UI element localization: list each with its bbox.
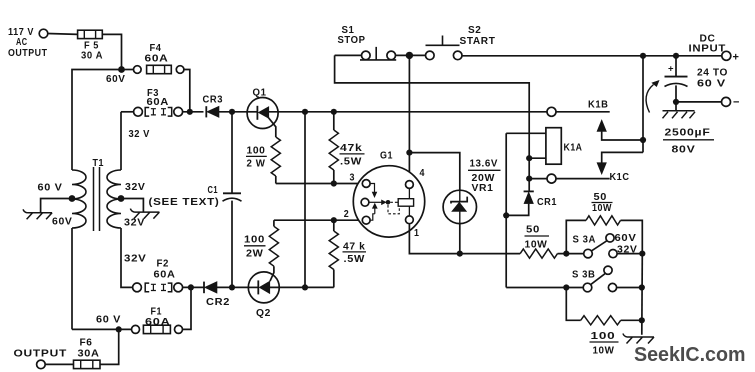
switch S3A (573, 233, 638, 258)
node K1A bottom / S1-loop line (526, 155, 532, 161)
resistor 47k .5W (upper) (329, 112, 364, 187)
svg-text:60A: 60A (147, 97, 170, 108)
transistor Q2 (248, 266, 334, 319)
wire S3A 32V to right rail (617, 253, 642, 255)
svg-text:.5W: .5W (344, 254, 366, 265)
svg-text:OUTPUT: OUTPUT (8, 48, 48, 59)
svg-text:STOP: STOP (338, 35, 366, 46)
svg-text:CR1: CR1 (537, 197, 557, 208)
terminal DC input - (722, 97, 740, 109)
wire S1 to S2 (396, 54, 426, 56)
svg-text:Q1: Q1 (253, 88, 267, 99)
svg-text:START: START (460, 36, 496, 47)
node C1 line / Q2 line junction (229, 284, 235, 290)
svg-text:F2: F2 (157, 259, 170, 270)
fuse F4 60A (134, 43, 184, 74)
node x305 / Q2 line (302, 284, 308, 290)
svg-text:S 3A: S 3A (573, 235, 597, 246)
wire T1 secondary bottom down to F2 (121, 228, 133, 287)
svg-text:60A: 60A (145, 54, 169, 65)
svg-text:VR1: VR1 (472, 183, 494, 194)
node 60V junction (118, 66, 125, 73)
wire CR3 node down to C1 (231, 112, 233, 194)
svg-text:2W: 2W (246, 248, 264, 259)
switch S2 START (NO pushbutton) (426, 25, 496, 60)
svg-text:60 V: 60 V (38, 183, 63, 194)
wire 60V node to F4 (122, 69, 134, 71)
wire F4 to main line (184, 70, 190, 112)
wire right rail (641, 254, 644, 335)
svg-text:1: 1 (414, 228, 420, 239)
relay contact K1C (529, 152, 643, 183)
fuse F3 60A (134, 88, 183, 116)
svg-text:CR3: CR3 (203, 94, 224, 105)
node VR1/rail junction (457, 251, 463, 257)
svg-text:AC: AC (16, 37, 28, 48)
wire OUTPUT terminal to F6 (45, 363, 73, 365)
svg-text:K1A: K1A (564, 143, 583, 154)
wire Q2 collector line to G1 pin2 (274, 219, 362, 221)
svg-text:60 V: 60 V (96, 315, 121, 326)
svg-text:10W: 10W (525, 240, 548, 251)
node right rail bottom (639, 317, 645, 323)
node main line / 47k top (331, 109, 337, 115)
svg-text:2500µF: 2500µF (665, 128, 711, 139)
capacitor C1 (SEE TEXT) (149, 185, 242, 287)
diode CR1 (506, 191, 557, 215)
wire CR2 to Q2 (217, 286, 248, 288)
ground (capacitor) (663, 102, 696, 118)
svg-text:100: 100 (247, 146, 266, 157)
wire primary tap to chassis (41, 199, 72, 213)
wire G1 pin1 to lower rail (409, 224, 520, 254)
wire to VR1 top (409, 153, 459, 191)
node right rail mid (639, 284, 645, 290)
svg-text:S2: S2 (468, 25, 482, 36)
node right rail top (639, 251, 645, 257)
svg-text:10W: 10W (593, 346, 615, 357)
svg-text:32V: 32V (125, 182, 146, 193)
svg-text:SeekIC.com: SeekIC.com (634, 343, 746, 366)
diode CR2 (204, 282, 230, 308)
svg-text:G1: G1 (380, 151, 393, 162)
wire S1 bypass loop (335, 55, 530, 191)
node T1 secondary center tap (118, 195, 125, 202)
transformer T1 (72, 158, 121, 231)
svg-text:60V: 60V (106, 74, 126, 85)
wire 117V terminal to F5 (48, 33, 78, 36)
switch S3B (572, 266, 617, 292)
wire VR1 bottom to rail (459, 224, 461, 254)
wire G1 pin4 riser (408, 55, 410, 180)
wire Q1 emitter line to G1 pin3 (276, 183, 363, 185)
chassis connection (primary tap) (23, 209, 52, 219)
wire F5 to 60V node (102, 34, 121, 69)
svg-text:F4: F4 (150, 43, 162, 54)
svg-text:60 V: 60 V (697, 79, 726, 90)
transistor Q1 (247, 88, 305, 138)
svg-text:30 A: 30 A (81, 51, 103, 62)
node F1/F6 junction (116, 326, 122, 332)
svg-text:CR2: CR2 (206, 297, 230, 308)
node K1C / CR1 line (526, 176, 532, 182)
node cap / minus line (673, 99, 679, 105)
wire F3 to CR3 node (183, 111, 204, 113)
terminal 117V AC OUTPUT (8, 27, 48, 59)
fuse F2 60A (133, 259, 183, 292)
svg-text:T1: T1 (93, 158, 105, 169)
svg-text:(SEE TEXT): (SEE TEXT) (149, 197, 220, 208)
svg-text:4: 4 (420, 168, 426, 179)
svg-text:13.6V: 13.6V (470, 159, 499, 170)
svg-text:Q2: Q2 (256, 308, 271, 319)
vibrator G1 (344, 151, 425, 240)
wire F3 line from transformer corner (121, 111, 134, 113)
node 47k lower top (331, 217, 337, 223)
svg-text:10W: 10W (592, 203, 612, 214)
wire DC feed down to K1 commons (642, 56, 644, 153)
svg-text:32 V: 32 V (129, 129, 151, 140)
fuse F1 60A (132, 307, 183, 334)
node S3B feed / 100ohm drop (563, 284, 569, 290)
resistor 100 ohm 10W (566, 288, 642, 357)
capacitor 2500uF 80V (646, 53, 714, 156)
svg-text:32V: 32V (124, 218, 145, 229)
node 50ohm/50ohm junction (563, 251, 569, 257)
node CR1 return (503, 212, 509, 218)
node S1/S2/G1-pin4 junction (406, 52, 413, 59)
wire T1 primary bottom down (71, 228, 73, 329)
svg-text:60A: 60A (145, 317, 171, 328)
svg-text:−: − (733, 97, 739, 109)
chassis ground (bottom right) (623, 334, 654, 344)
svg-text:30A: 30A (78, 349, 100, 360)
svg-text:2: 2 (344, 209, 350, 220)
wire 60V node left and down to T1 primary (72, 70, 122, 171)
zener VR1 13.6V 20W (443, 159, 500, 224)
wire F1 line (72, 328, 132, 330)
svg-text:60A: 60A (154, 270, 176, 281)
svg-text:60V: 60V (615, 233, 637, 244)
svg-text:+: + (733, 52, 739, 64)
wire lower S3B feed line (506, 287, 583, 289)
terminal OUTPUT (bottom) (14, 349, 68, 369)
wire F2 to CR2 node (183, 286, 204, 288)
wire branch x=305 vertical (304, 112, 306, 288)
svg-text:47 k: 47 k (343, 242, 366, 253)
fuse F6 30A (74, 338, 101, 369)
wire main collector line Q1 to K1B (305, 111, 547, 113)
diode CR3 (203, 94, 224, 117)
resistor 50 ohm 10W (left) (520, 225, 584, 259)
node K1B common / DC feed (640, 137, 646, 143)
svg-text:C1: C1 (208, 185, 219, 196)
svg-text:3: 3 (350, 173, 356, 184)
svg-text:2 W: 2 W (247, 158, 266, 169)
node main line / x305 branch (302, 109, 308, 115)
svg-text:60V: 60V (52, 217, 73, 228)
node F2/F1/CR2 junction (188, 284, 194, 290)
resistor 100 ohm 2W (Q1 emitter) (246, 137, 280, 184)
svg-text:.5W: .5W (340, 156, 362, 167)
svg-text:OUTPUT: OUTPUT (14, 349, 68, 360)
node DC + line / K1 feed (640, 53, 646, 59)
svg-text:K1C: K1C (610, 172, 630, 183)
fuse F5 30A (78, 30, 103, 61)
wire F6 up to F1 node (100, 329, 119, 364)
node CR3/C1 junction (229, 109, 235, 115)
resistor 50 ohm 10W (upper, parallel S3A) (566, 192, 642, 254)
chassis connection (secondary tap) (130, 209, 159, 219)
relay contact K1B (547, 100, 643, 141)
resistor 100 ohm 2W (Q2 collector) (244, 220, 279, 266)
svg-text:F1: F1 (151, 307, 163, 318)
node F3/F4/CR3 junction (187, 109, 193, 115)
svg-text:50: 50 (526, 225, 540, 236)
node VR1 branch (406, 150, 412, 156)
wire S2 to DC input + (462, 55, 722, 57)
wire F1 up to CR2 node (183, 287, 192, 329)
node T1 primary center tap (69, 195, 76, 202)
svg-text:K1B: K1B (588, 100, 609, 111)
terminal DC input + (689, 34, 739, 64)
wire K1A-top / CR1 return line (505, 133, 507, 287)
wire secondary tap to chassis (121, 199, 143, 212)
svg-text:S 3B: S 3B (572, 270, 596, 281)
svg-text:100: 100 (244, 235, 265, 246)
svg-text:INPUT: INPUT (689, 44, 727, 55)
wire S3B to right rail (617, 287, 642, 289)
svg-text:47k: 47k (340, 143, 363, 154)
svg-text:50: 50 (594, 192, 608, 203)
svg-text:F6: F6 (80, 338, 93, 349)
switch S1 STOP (NC pushbutton) (335, 25, 397, 60)
svg-text:32V: 32V (124, 254, 147, 265)
relay coil K1A (506, 128, 582, 165)
wire CR3 to Q1 (219, 111, 247, 113)
svg-text:+: + (668, 64, 674, 75)
svg-text:100: 100 (591, 331, 616, 342)
svg-text:24 TO: 24 TO (697, 68, 728, 79)
wire to DC input - terminal (676, 101, 722, 103)
resistor 47k .5W (lower) (329, 220, 366, 287)
svg-text:80V: 80V (672, 145, 696, 156)
